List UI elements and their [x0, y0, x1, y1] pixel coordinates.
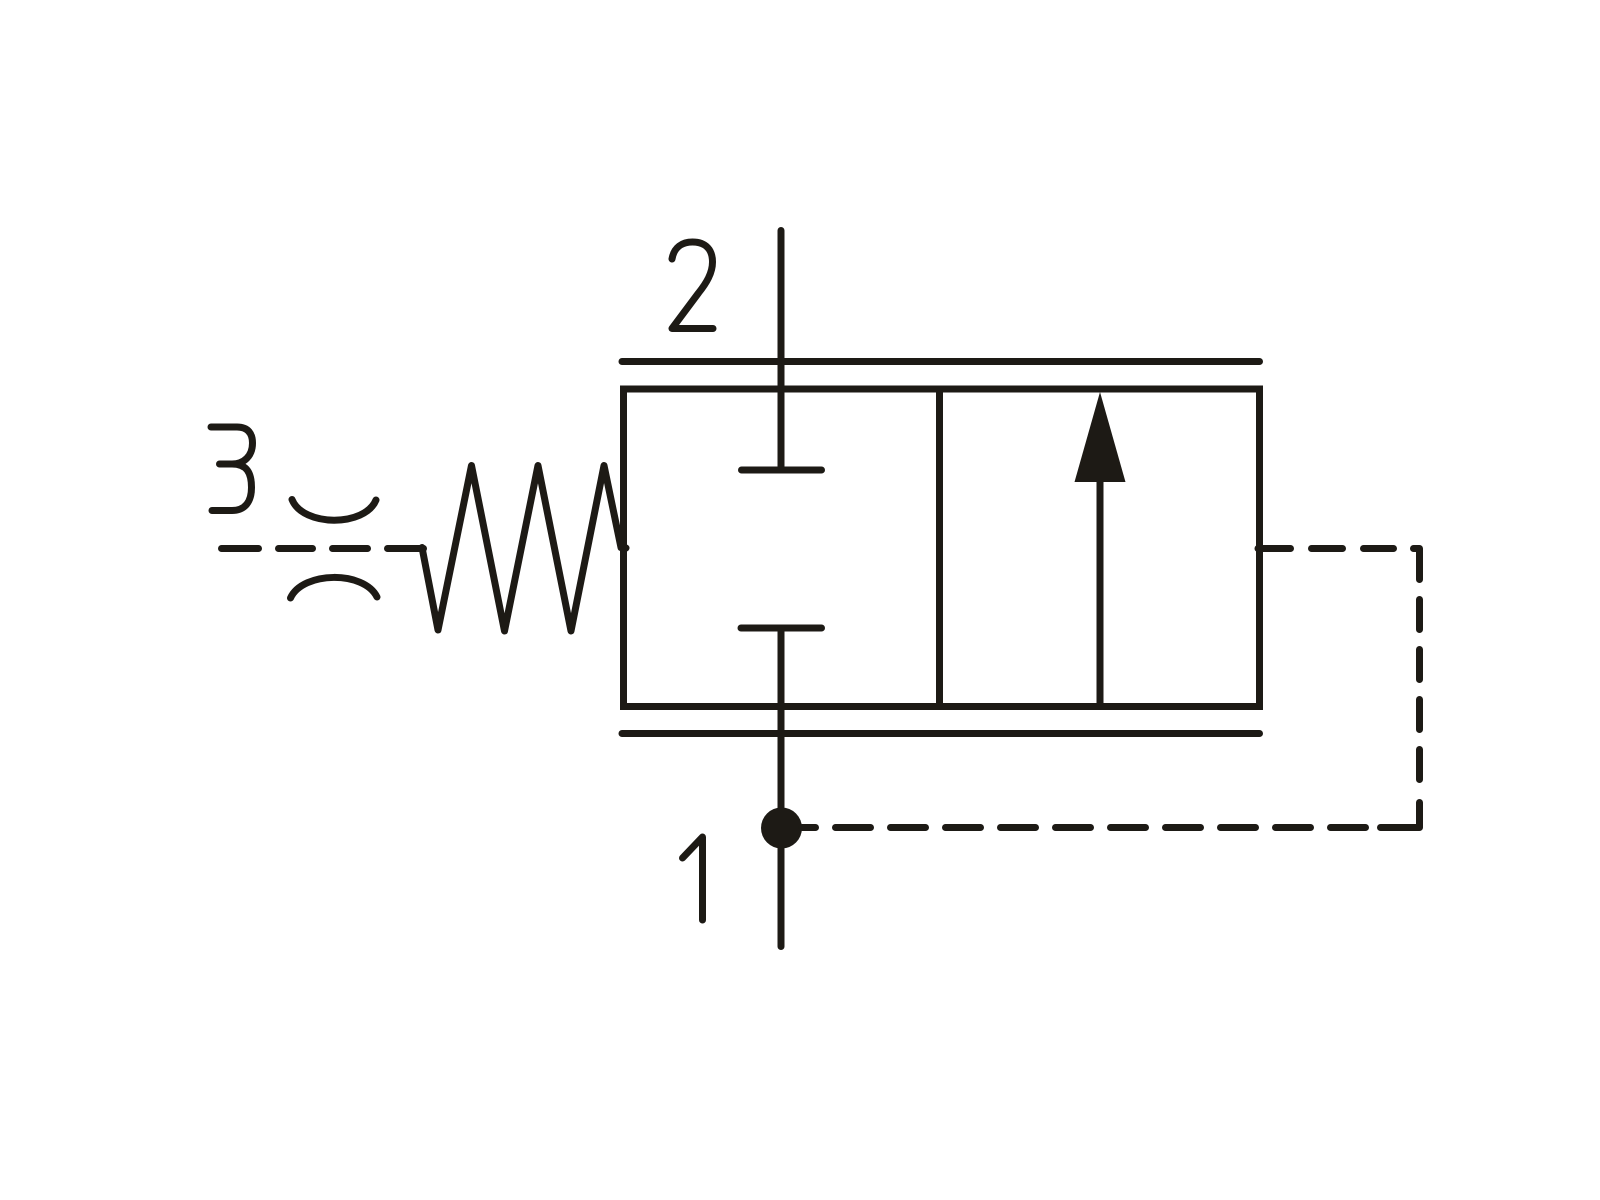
valve body box	[624, 389, 1260, 707]
restriction upper arc	[292, 500, 376, 521]
dashed pilot line port 3	[222, 545, 424, 552]
wire: dashes from box right edge	[1258, 545, 1291, 552]
upper seat crossbar	[742, 467, 822, 474]
dashed pilot line from node 1 to box right side	[802, 549, 1420, 828]
arrowhead	[1075, 392, 1126, 482]
label 2	[672, 242, 713, 329]
position divider	[936, 389, 943, 707]
spring	[422, 466, 626, 632]
label 1	[683, 837, 703, 920]
bottom-right corner dash	[1381, 803, 1420, 828]
junction dot node 1	[761, 808, 802, 849]
restriction lower arc	[291, 577, 378, 598]
upper parallel line	[622, 358, 1260, 365]
port 1 wire	[778, 628, 785, 947]
wire: bottom dashed run	[836, 824, 1366, 831]
label 3	[211, 427, 253, 511]
stub at junction dot	[802, 824, 816, 831]
top-right corner dash	[1414, 549, 1420, 580]
lower parallel line	[622, 730, 1260, 737]
lower seat crossbar	[741, 625, 822, 632]
port 2 wire	[778, 231, 785, 471]
wire: right vertical dashed run	[1416, 600, 1423, 780]
arrow shaft	[1097, 478, 1104, 707]
